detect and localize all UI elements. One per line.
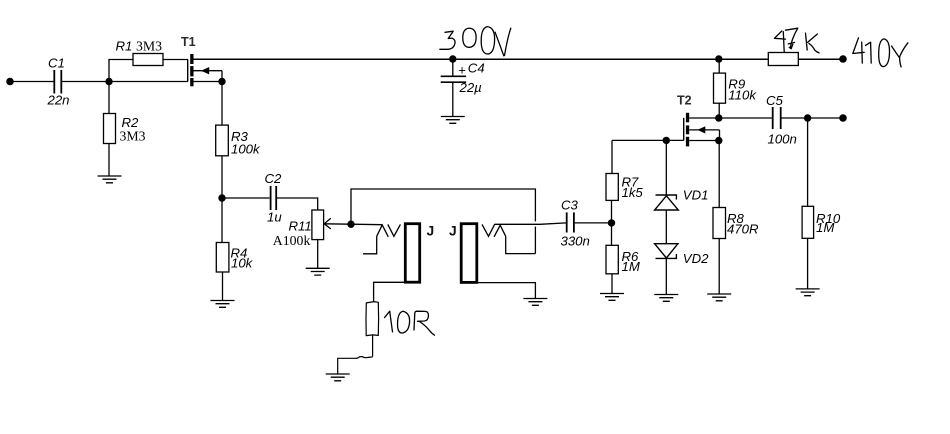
resistor R6	[606, 223, 618, 294]
svg-text:1k5: 1k5	[622, 185, 644, 200]
wire VD node down	[665, 140, 667, 195]
svg-text:10k: 10k	[231, 256, 254, 271]
node wiper junction	[347, 221, 354, 228]
node D junction	[804, 114, 811, 121]
resistor R4	[216, 243, 229, 273]
svg-text:VD2: VD2	[683, 251, 709, 266]
potentiometer R11	[312, 210, 324, 240]
resistor R1	[133, 54, 163, 66]
svg-text:C1: C1	[48, 56, 65, 71]
wire input to C1	[10, 81, 54, 83]
node rail R9 junction	[715, 55, 722, 62]
wire R11 to ground	[317, 240, 319, 269]
wire T2 source to R8	[718, 141, 720, 208]
wire R3 to node B	[221, 156, 223, 198]
node T1 source junction	[218, 78, 225, 85]
ground C4	[441, 117, 465, 124]
tube left grid zigzag	[377, 224, 401, 236]
wire T2 drain to C5	[719, 117, 772, 119]
wire C2 to R11	[277, 198, 318, 210]
svg-text:C5: C5	[766, 93, 784, 108]
tube right plate bar	[461, 224, 477, 283]
node C junction	[608, 219, 615, 226]
node 300V	[449, 55, 456, 62]
resistor R7	[606, 140, 618, 223]
wire left cathode foot	[363, 236, 377, 254]
node B junction	[218, 194, 225, 201]
svg-text:100n: 100n	[768, 132, 797, 147]
svg-text:110k: 110k	[728, 88, 757, 103]
wire left tube bottom to 10R	[374, 282, 410, 302]
wiper arrow R11	[324, 218, 351, 229]
transistor T1	[188, 54, 194, 86]
svg-text:470R: 470R	[727, 222, 759, 237]
svg-text:A100k: A100k	[273, 233, 311, 248]
ground R4	[211, 301, 235, 308]
svg-text:R11: R11	[289, 219, 312, 234]
wire right grid to C3	[494, 223, 566, 224]
svg-text:22µ: 22µ	[459, 80, 483, 95]
output terminal	[839, 114, 847, 122]
svg-text:1M: 1M	[622, 259, 640, 274]
wire R1 to T1 gate top	[163, 59, 188, 61]
resistor R8	[713, 208, 726, 239]
wire T1 source	[194, 81, 223, 83]
wire T2 drain	[689, 117, 719, 119]
ground VD2	[654, 295, 678, 302]
ground R6	[600, 294, 624, 301]
wire node B to C2	[222, 197, 270, 199]
label 10R handwritten	[385, 311, 435, 335]
wire C3 to node C	[575, 222, 612, 224]
wire node B to R4	[221, 198, 223, 243]
capacitor C2	[271, 186, 277, 210]
wire T1 body arrow	[194, 67, 223, 82]
ground R8	[707, 294, 731, 301]
svg-text:3M3: 3M3	[120, 129, 146, 144]
svg-text:3M3: 3M3	[136, 39, 162, 54]
capacitor C5	[773, 107, 781, 129]
resistor R10	[802, 118, 814, 289]
wire T1 source to R3	[221, 82, 223, 126]
diode VD1	[655, 195, 679, 210]
svg-text:100k: 100k	[231, 142, 261, 157]
resistor R9	[714, 59, 726, 118]
wire feedback loop over tubes	[351, 189, 535, 254]
label 47K handwritten	[774, 28, 819, 53]
node T2 source junction	[715, 137, 722, 144]
power rail 300V	[194, 58, 844, 60]
node A junction	[105, 78, 112, 85]
wire T2 body arrow	[689, 126, 719, 140]
capacitor C3	[567, 212, 574, 232]
wire node D to output terminal	[808, 117, 843, 119]
capacitor C4	[441, 59, 466, 117]
input terminal	[6, 78, 14, 86]
resistor 47K	[768, 53, 798, 66]
diode VD2	[655, 244, 678, 259]
ground R2	[98, 176, 122, 183]
svg-text:C3: C3	[561, 198, 579, 213]
wire R8 to ground	[718, 239, 720, 295]
wire R7 to T2 gate	[612, 139, 684, 141]
ground right tube	[523, 299, 547, 306]
capacitor C1	[54, 70, 61, 94]
wire C5 to node D	[781, 117, 807, 119]
wire wiper node to left grid	[351, 223, 382, 226]
node VD junction	[663, 137, 670, 144]
wire right cathode foot	[506, 236, 536, 253]
wire right tube bottom to ground	[470, 283, 535, 299]
svg-text:330n: 330n	[561, 234, 590, 249]
terminal 410V	[839, 55, 847, 63]
wire node A up to R1	[109, 60, 133, 82]
ground 10R	[326, 374, 350, 381]
svg-text:R1: R1	[116, 38, 133, 53]
svg-text:VD1: VD1	[683, 188, 709, 203]
tube left plate bar	[405, 224, 419, 283]
ground R10	[796, 289, 820, 296]
node T2 drain junction	[715, 114, 722, 121]
svg-text:1M: 1M	[816, 220, 834, 235]
label 410V handwritten	[853, 38, 908, 67]
svg-text:T1: T1	[181, 35, 196, 49]
wire R4 to ground	[222, 272, 224, 301]
wire C1 to node A	[62, 81, 109, 83]
svg-text:J: J	[427, 223, 435, 238]
svg-text:+: +	[458, 63, 466, 78]
ground R11	[306, 268, 330, 275]
resistor R2	[104, 82, 116, 177]
svg-text:22n: 22n	[47, 93, 70, 108]
wire VD1 to VD2	[665, 210, 667, 244]
resistor 10R sketchy	[338, 302, 379, 374]
wire VD2 to ground	[665, 258, 667, 294]
svg-text:C4: C4	[468, 60, 485, 75]
wire T2 source	[689, 140, 719, 142]
transistor T2	[684, 113, 690, 147]
svg-text:1u: 1u	[267, 210, 282, 225]
svg-text:C2: C2	[265, 171, 283, 186]
label 300V handwritten	[440, 27, 511, 56]
tube right grid zigzag	[482, 224, 506, 236]
resistor R3	[216, 125, 229, 156]
svg-text:J: J	[449, 223, 457, 238]
svg-text:T2: T2	[677, 93, 692, 107]
wire node A to T1 gate bottom	[109, 81, 188, 83]
